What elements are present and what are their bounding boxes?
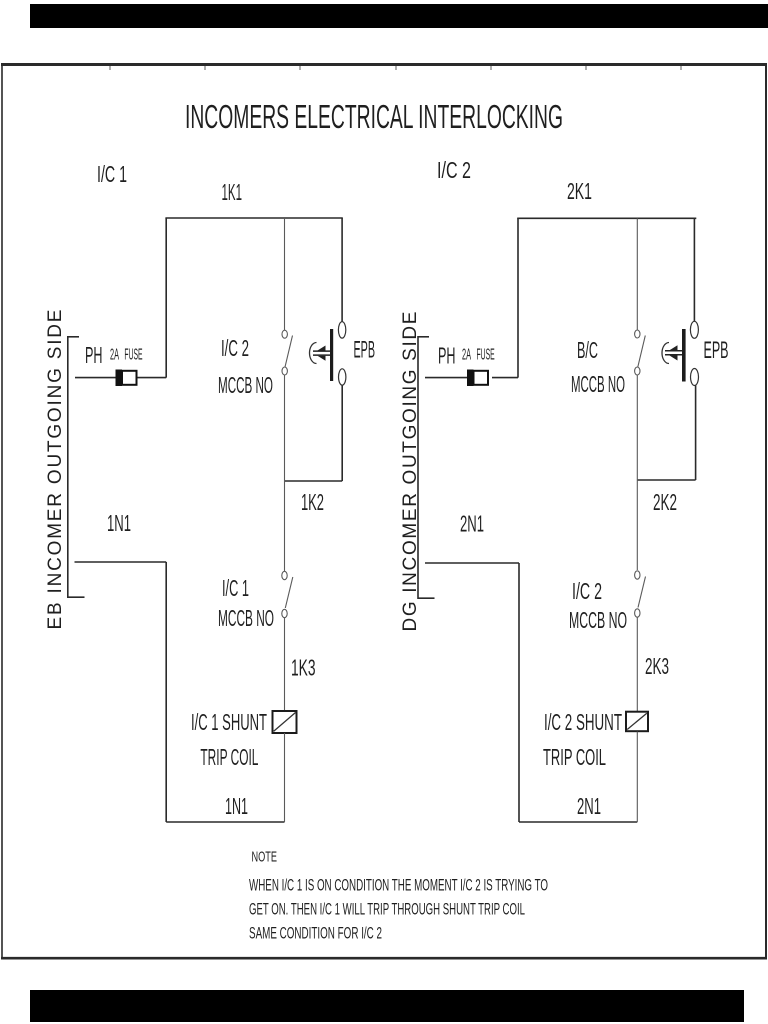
- svg-text:1K3: 1K3: [291, 655, 316, 681]
- wire EPB branch upper: [341, 218, 343, 322]
- svg-text:2K2: 2K2: [653, 489, 677, 515]
- svg-text:I/C 2: I/C 2: [437, 157, 471, 183]
- top background bar: [30, 4, 768, 28]
- svg-text:PH: PH: [438, 343, 456, 369]
- push button EPB right: [662, 321, 698, 386]
- wire fuse left: [75, 377, 116, 379]
- contact 1K1 (I/C 2 MCCB NO): [282, 218, 293, 481]
- contact 1K3 (I/C 1 MCCB NO): [282, 481, 293, 711]
- wire fuse right: [137, 377, 167, 379]
- coil I/C 1 shunt trip: [273, 711, 297, 822]
- wire 2K2 horizontal: [637, 479, 695, 481]
- svg-text:I/C 2 SHUNT: I/C 2 SHUNT: [544, 709, 622, 735]
- svg-text:FUSE: FUSE: [477, 346, 495, 363]
- outgoing-side bracket left: [68, 336, 85, 598]
- wire EPB branch lower: [341, 386, 343, 482]
- svg-text:DG INCOMER OUTGOING SIDE: DG INCOMER OUTGOING SIDE: [400, 312, 421, 632]
- wire fuse right: [492, 377, 518, 379]
- wire top 1K1: [165, 217, 342, 219]
- wire fuse left: [425, 377, 467, 379]
- wire EPB branch upper right: [693, 218, 695, 321]
- frame tick marks: [110, 66, 681, 70]
- svg-text:1N1: 1N1: [225, 793, 248, 819]
- svg-text:EPB: EPB: [354, 337, 376, 364]
- svg-text:I/C 2: I/C 2: [572, 578, 602, 604]
- svg-text:I/C 1: I/C 1: [222, 575, 249, 601]
- wire 1K2 horizontal: [285, 480, 343, 482]
- wire 1N1 horizontal: [75, 561, 167, 563]
- svg-text:1N1: 1N1: [107, 510, 131, 536]
- wire left vertical lower right circuit: [518, 563, 520, 822]
- svg-text:2N1: 2N1: [460, 511, 484, 537]
- svg-text:2K1: 2K1: [567, 178, 592, 204]
- svg-text:WHEN I/C 1 IS ON CONDITION THE: WHEN I/C 1 IS ON CONDITION THE MOMENT I/…: [249, 877, 548, 895]
- svg-text:NOTE: NOTE: [252, 849, 278, 865]
- fuse 2A right: [467, 370, 488, 387]
- svg-text:MCCB NO: MCCB NO: [571, 371, 625, 397]
- svg-text:2N1: 2N1: [577, 793, 601, 819]
- svg-text:MCCB NO: MCCB NO: [218, 372, 273, 398]
- svg-text:SAME CONDITION FOR I/C 2: SAME CONDITION FOR I/C 2: [249, 925, 382, 943]
- svg-text:EPB: EPB: [704, 337, 729, 364]
- wire bottom: [166, 821, 284, 823]
- svg-text:PH: PH: [85, 342, 103, 368]
- svg-text:2A: 2A: [462, 346, 471, 363]
- wire left vertical lower: [165, 562, 167, 822]
- svg-text:MCCB NO: MCCB NO: [569, 607, 627, 633]
- wire bottom right circuit: [519, 821, 637, 823]
- svg-text:MCCB NO: MCCB NO: [218, 605, 274, 631]
- svg-text:I/C 2: I/C 2: [221, 335, 249, 361]
- wire left vertical upper right circuit: [517, 218, 519, 377]
- contact 2K3 (I/C 2 MCCB NO): [635, 480, 646, 712]
- contact 2K1 (B/C MCCB NO): [635, 218, 646, 480]
- coil I/C 2 shunt trip: [626, 712, 648, 822]
- fuse 2A left: [116, 370, 137, 387]
- svg-text:EB INCOMER OUTGOING SIDE: EB INCOMER OUTGOING SIDE: [45, 310, 66, 630]
- wire left vertical upper: [165, 218, 167, 378]
- svg-text:FUSE: FUSE: [124, 346, 142, 363]
- svg-text:GET ON. THEN I/C 1 WILL TRIP T: GET ON. THEN I/C 1 WILL TRIP THROUGH SHU…: [249, 901, 525, 919]
- bottom background bar: [30, 990, 744, 1022]
- wire top 2K1: [517, 217, 696, 219]
- wire EPB branch lower right: [695, 386, 697, 481]
- svg-text:1K2: 1K2: [301, 489, 324, 515]
- svg-text:B/C: B/C: [577, 337, 598, 363]
- outgoing-side bracket right: [418, 336, 435, 599]
- svg-text:I/C 1 SHUNT: I/C 1 SHUNT: [191, 709, 267, 735]
- svg-text:TRIP COIL: TRIP COIL: [543, 744, 606, 770]
- svg-text:1K1: 1K1: [222, 179, 243, 205]
- svg-text:INCOMERS ELECTRICAL INTERLOCKI: INCOMERS ELECTRICAL INTERLOCKING: [185, 98, 563, 135]
- svg-text:I/C 1: I/C 1: [97, 161, 127, 187]
- push button EPB left: [310, 322, 346, 386]
- svg-text:2A: 2A: [110, 346, 119, 363]
- wire 2N1 horizontal: [425, 562, 519, 564]
- svg-text:2K3: 2K3: [645, 653, 669, 679]
- svg-text:TRIP COIL: TRIP COIL: [200, 744, 258, 770]
